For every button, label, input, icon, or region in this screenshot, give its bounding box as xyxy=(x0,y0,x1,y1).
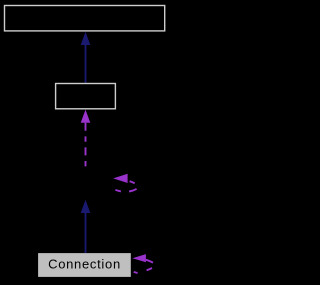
wire inheritance arrow shaft xyxy=(85,45,87,85)
node middle class box xyxy=(56,84,116,109)
node top class box xyxy=(5,6,165,31)
self-loop arrowhead 2 xyxy=(132,254,146,262)
usage arrow head (invisible node to middle box, purple dashed) xyxy=(81,110,91,123)
wire usage arrow dashed shaft xyxy=(85,123,87,171)
self-loop edge on invisible node (dash segments) xyxy=(115,181,136,191)
self-loop edge on Connection node (dash segments) xyxy=(134,260,153,273)
svg-text:Connection: Connection xyxy=(48,257,121,272)
inheritance arrow (middle box to top box) xyxy=(81,32,91,45)
node Connection (main, grey filled) xyxy=(38,253,131,277)
wire inheritance arrow 2 shaft xyxy=(85,213,87,254)
self-loop arrowhead 1 xyxy=(113,174,127,183)
inheritance arrow (Connection to invisible node) xyxy=(81,200,91,213)
